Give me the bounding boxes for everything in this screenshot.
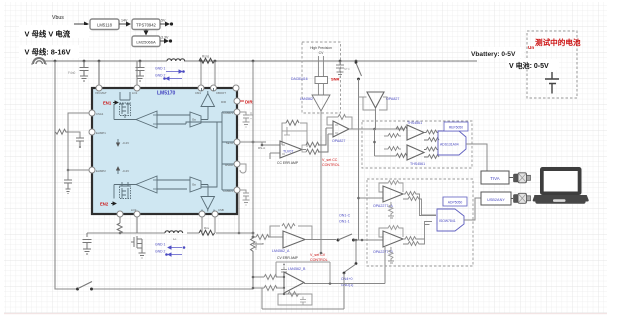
annotation 0.2V ref 2: [117, 167, 119, 174]
label DIR red: [245, 100, 253, 105]
capacitor C3 to ground: [64, 180, 72, 189]
svg-text:ADS131A04: ADS131A04: [440, 143, 459, 147]
pin bottom 1: [117, 211, 123, 217]
capacitor C_in2 with ground: [136, 61, 145, 81]
svg-text:THS4561: THS4561: [407, 121, 422, 125]
feedback resistor R42: [379, 226, 403, 238]
op-amp U16 OPA2277_B: [383, 231, 403, 247]
capacitor C2: [76, 138, 84, 146]
svg-text:CSA1: CSA1: [96, 112, 104, 116]
op-amp U8 OPA827B apex down: [367, 92, 384, 108]
resistor R43 to ground: [388, 247, 394, 263]
wire input taps: [253, 277, 264, 288]
svg-text:USB2ANY: USB2ANY: [487, 198, 505, 202]
wire right rail battery+: [252, 61, 254, 233]
svg-text:V 母线: 8-16V: V 母线: 8-16V: [25, 48, 71, 57]
svg-text:DIR: DIR: [245, 100, 253, 105]
wire output: [302, 149, 306, 151]
op-amp U6 TLV07: [280, 141, 302, 158]
svg-text:CONTROL: CONTROL: [310, 258, 328, 262]
wire gm1 output left: [114, 104, 136, 120]
pin top CBOOT: [211, 85, 217, 91]
wire outputs B: [403, 222, 432, 246]
svg-text:NTC: NTC: [344, 67, 350, 71]
svg-text:TPS70942: TPS70942: [136, 23, 156, 28]
svg-text:5V: 5V: [161, 19, 166, 23]
IC internals: [100, 88, 234, 212]
wire outputs A: [403, 192, 436, 216]
connector J1 (arcs): [33, 58, 45, 64]
wire DAC bus lines: [319, 56, 324, 77]
USB plug P2: [514, 193, 531, 203]
svg-text:CM1: CM1: [195, 91, 201, 95]
ADC U13 ADS131A04: [438, 131, 466, 155]
battery BT1: [545, 72, 559, 94]
svg-text:OPA827: OPA827: [332, 139, 345, 143]
svg-text:V_set CC: V_set CC: [322, 158, 338, 162]
wire ADC output to TIVA: [466, 144, 487, 171]
wire gm2 to mux2: [157, 180, 190, 189]
resistor R23: [264, 275, 284, 280]
pin right HSRD: [234, 161, 240, 167]
wire amp1 outputs to ADC: [424, 130, 439, 142]
IC U1 LM5170 body: [92, 88, 237, 214]
svg-text:V 电池: 0-5V: V 电池: 0-5V: [509, 61, 549, 70]
regulator U_LM5118: [90, 19, 119, 30]
wire DAC to buffer: [319, 84, 324, 96]
op-amp U7 OPA827: [333, 121, 349, 137]
wire output to OPA2277B lower input: [384, 247, 386, 284]
wire SETA to TLV07 input: [240, 141, 262, 143]
resistor R1 (horizontal): [56, 129, 69, 134]
wire EN1 arrow: [113, 102, 118, 104]
wire LM25066A 3.3V output: [160, 40, 168, 42]
op-amp gm2 (points left): [136, 176, 157, 193]
wire driver to pins: [202, 88, 214, 94]
label Vbattery: 0-5V: [469, 47, 524, 58]
svg-text:TLV07: TLV07: [283, 150, 293, 154]
svg-text:GND 1: GND 1: [155, 243, 165, 247]
svg-text:ON1-C: ON1-C: [339, 214, 351, 218]
wire CSA1 pin to left rail: [68, 113, 89, 180]
wire ISOW output to USB2ANY: [464, 198, 481, 220]
svg-text:TIVA: TIVA: [490, 176, 500, 181]
svg-text:CV: CV: [319, 51, 324, 55]
laptop PC: [533, 167, 589, 204]
wire CM2/CSB pins down: [202, 217, 215, 233]
wire output to switch: [305, 239, 336, 241]
svg-text:ADP5050: ADP5050: [448, 201, 463, 205]
svg-text:ON1-1: ON1-1: [339, 220, 350, 224]
box group2: [367, 179, 473, 266]
module TIVA: [481, 171, 509, 184]
op-amp U15 OPA2277_A: [383, 186, 403, 202]
svg-text:Ga: Ga: [192, 183, 196, 187]
wire node split: [375, 129, 397, 156]
transistor Q3: [131, 217, 142, 253]
label EN2 (red): [100, 202, 109, 207]
pin right COMP2: [234, 187, 240, 193]
label CV ERR AMP: [277, 256, 299, 260]
wire TPS70942 5V output: [160, 23, 169, 25]
svg-text:GND 2: GND 2: [155, 74, 165, 78]
transistor pair Q1 top-left: [120, 92, 130, 118]
wire output: [304, 283, 385, 285]
wire bottom loop: [262, 288, 344, 309]
network COMP2: cap+res to ground: [240, 190, 250, 205]
svg-text:Lo: Lo: [173, 237, 177, 241]
wire TIVA to USB plug: [509, 177, 513, 179]
wire right bottom pin drop: [238, 193, 240, 233]
label V busline 8-16V (chinese): [19, 45, 79, 58]
feedback loop: resistor R12 + cap C12: [282, 123, 307, 147]
svg-text:LM4562_B: LM4562_B: [288, 267, 306, 271]
wire pin B1 down + resistor R9 to ground: [117, 217, 122, 233]
svg-text:ExtMP1: ExtMP1: [96, 131, 106, 135]
wire to OPA2277A input: [359, 197, 384, 199]
svg-text:LM25066A: LM25066A: [136, 40, 156, 45]
label V busline V current (chinese): [19, 25, 89, 38]
svg-text:Rsv: Rsv: [204, 226, 210, 230]
regulator U_LM25066A: [132, 36, 160, 47]
wire crossover rect: [186, 122, 217, 187]
cap C25 at +in: [281, 267, 287, 278]
mux M2: [190, 177, 201, 192]
svg-text:测试中的电池: 测试中的电池: [535, 37, 581, 47]
wire rail resistor R22 vertical: [251, 233, 256, 289]
pin top CM1: [198, 85, 204, 91]
svg-text:LM5118: LM5118: [97, 23, 112, 28]
pin bottom CM2: [199, 211, 205, 217]
wire top bus: [44, 60, 167, 62]
label EN1 (red): [103, 101, 112, 106]
svg-text:GND 1: GND 1: [155, 67, 165, 71]
label ON4 GND (blue): [341, 277, 353, 287]
feedback loop below: resistor R25 cap C26: [278, 288, 312, 305]
wire inputs: [326, 128, 333, 134]
label SNR (red): [331, 77, 340, 82]
wire right rail column: [216, 112, 234, 190]
capacitor C7 on bus: [336, 61, 344, 77]
pin left COMP: [89, 129, 95, 135]
wire switch to OPA2277B: [354, 239, 384, 241]
svg-text:EN2: EN2: [100, 202, 109, 207]
svg-text:LM4562: LM4562: [300, 97, 313, 101]
svg-text:ON4+0: ON4+0: [341, 277, 353, 281]
wire buffer input tap: [359, 96, 367, 98]
op-amp U11 THS4561: [407, 125, 424, 140]
wire S4 riser: [343, 273, 345, 309]
switch S_main: [76, 288, 79, 291]
wire gm2 output left: [114, 185, 136, 199]
label CC ERR AMP: [277, 161, 299, 165]
svg-text:OPA827: OPA827: [386, 97, 399, 101]
op-amp buffer LM4562 (apex down): [312, 95, 330, 111]
svg-text:-0.2V: -0.2V: [122, 169, 129, 173]
resistor Rsns2: [199, 230, 215, 235]
driver A1 (top, apex up): [201, 94, 215, 107]
wire amp2 outputs to ADC: [424, 147, 439, 159]
wire CSA2 pin left: [68, 169, 89, 171]
pin top right corner: [233, 85, 239, 91]
wire output to group1: [349, 128, 405, 130]
annotation 0.2V ref: [117, 139, 119, 146]
wire bus drop to LO1 pin (over IC): [136, 61, 138, 85]
svg-text:14V: 14V: [121, 19, 128, 23]
reference U14 box: [444, 122, 468, 131]
pin right COMP1: [234, 109, 240, 115]
op-amp gm1 (points left): [136, 111, 157, 128]
feedback resistor R40: [379, 181, 403, 193]
svg-text:LM5170: LM5170: [157, 91, 176, 97]
svg-text:CONTROL: CONTROL: [322, 163, 340, 167]
wire top loop to CV block: [276, 262, 330, 283]
svg-text:3.3V: 3.3V: [161, 36, 169, 40]
svg-text:Ga: Ga: [192, 118, 196, 122]
svg-text:EN1: EN1: [103, 101, 112, 106]
wire Rsns pins down to IC: [201, 61, 215, 85]
wire stub to cap: [68, 132, 80, 138]
box group1: [362, 121, 472, 168]
label ON1 (blue): [339, 214, 351, 224]
svg-text:REF5050: REF5050: [449, 126, 463, 130]
svg-text:Vbattery: 0-5V: Vbattery: 0-5V: [471, 51, 516, 58]
annotation GND2 arrow bottom (blue): [155, 250, 182, 256]
resistor R14: [306, 134, 328, 154]
op-amp U12 THS4561: [407, 145, 424, 160]
resistor R13: [306, 128, 326, 147]
regulator U_TPS70942: [132, 19, 160, 30]
svg-text:ExtMP2: ExtMP2: [96, 169, 106, 173]
junction dots on bus: [54, 60, 358, 63]
svg-text:GND 2: GND 2: [155, 250, 165, 254]
wire bus drop to pin VIN: [98, 61, 100, 85]
capacitor C4 with ground: [83, 233, 92, 254]
svg-text:LO2: LO2: [131, 208, 137, 212]
box battery under test: [527, 31, 577, 98]
svg-text:V_set CV: V_set CV: [310, 253, 326, 257]
resistor R24: [264, 286, 284, 291]
pin right DIR: [234, 98, 240, 104]
svg-text:Rsns: Rsns: [202, 55, 210, 59]
pin right SETA: [234, 139, 240, 145]
pin left CSA1: [89, 110, 95, 116]
pin top LO1: [134, 85, 140, 91]
wire mux2 to driver2: [201, 185, 208, 197]
mux M1: [190, 112, 201, 127]
wire driver2 to pins: [202, 210, 214, 212]
wire left rail down: [55, 61, 76, 289]
wire output down to THS node: [375, 108, 377, 129]
svg-text:CSB: CSB: [218, 208, 224, 212]
resistor R32: [396, 154, 407, 158]
feedback rect: [363, 97, 387, 110]
pin bottom LO2: [134, 211, 140, 217]
resistor R30: [396, 127, 407, 131]
svg-text:CC ERR AMP: CC ERR AMP: [277, 161, 299, 165]
svg-text:Vbus: Vbus: [52, 15, 64, 21]
svg-text:CV ERR AMP: CV ERR AMP: [277, 256, 299, 260]
svg-text:VIN MGT: VIN MGT: [95, 91, 107, 95]
wire Vbus input arrow: [74, 23, 88, 25]
svg-text:SNR: SNR: [331, 77, 340, 82]
label V battery 0-5V (chinese): [507, 59, 559, 70]
module USB2ANY: [481, 192, 511, 205]
resistor R33: [384, 147, 401, 151]
svg-text:High Precision: High Precision: [310, 46, 332, 50]
resistor R31: [384, 134, 401, 138]
annotation GND1 arrow (blue): [155, 67, 185, 73]
wire gm1 to mux: [157, 115, 190, 124]
label Vset CC CONTROL (red): [322, 158, 340, 167]
label Vbattery vertical: [254, 241, 258, 250]
resistor R41 to ground: [388, 202, 394, 218]
wire bottom rail: [87, 232, 253, 234]
svg-text:ISOW7841: ISOW7841: [439, 219, 456, 223]
network COMP1: cap+res to ground: [240, 112, 250, 127]
wire LM5118 to TPS70942, 14V: [119, 23, 130, 25]
wire HSRD stub: [240, 164, 246, 173]
svg-text:CBOOT: CBOOT: [216, 91, 226, 95]
ground GND_L: [66, 189, 71, 194]
label Vset CV CONTROL (red): [310, 253, 328, 262]
node Vbus label: [52, 15, 64, 21]
feedback loop R15: [327, 117, 352, 129]
wire bus drop to pin LO1: [136, 61, 138, 85]
pin top VIN: [96, 85, 102, 91]
svg-text:LO1: LO1: [132, 91, 138, 95]
switch S3 ON1: [337, 239, 340, 242]
wire EN2 arrow: [111, 203, 116, 205]
annotation GND2 arrow (blue): [155, 74, 182, 80]
transistor pair Q2 bottom-left: [120, 182, 130, 198]
annotation GND1 arrow bottom (blue): [155, 243, 185, 249]
svg-text:LM4562_A: LM4562_A: [272, 249, 290, 253]
wire bottom return rail: [93, 288, 253, 290]
svg-text:V 母线 V 电流: V 母线 V 电流: [25, 29, 71, 38]
isolator U17 ISOW7841: [437, 209, 464, 231]
capacitor C_in1 with ground: [80, 61, 89, 81]
svg-text:THS4561: THS4561: [410, 162, 425, 166]
op-amp U9 LM4562_A: [283, 231, 305, 248]
wire Vset from DAC rail: [320, 136, 322, 253]
op-amp U10 GND sense: [284, 272, 304, 293]
pin left CSA2: [89, 167, 95, 173]
resistor Rsns1 on bus: [199, 58, 215, 63]
wire input 2: [270, 153, 280, 159]
USB plug P1: [514, 173, 531, 183]
wire USB2ANY to USB plug: [511, 198, 513, 200]
wire rail down: [358, 79, 360, 240]
wire buffer output down: [320, 111, 322, 136]
switch S4 vertical: [355, 239, 358, 242]
DAC U5: [315, 77, 328, 84]
svg-text:Un: Un: [528, 45, 534, 50]
driver A2 (bottom, apex down): [201, 197, 215, 210]
switch S2 from bus: [355, 61, 358, 64]
reference U18 box: [443, 197, 467, 206]
inductor L_bus: [167, 59, 185, 61]
wire inputs with resistors: [253, 235, 283, 240]
svg-text:DAC81416: DAC81416: [291, 77, 308, 81]
box High Precision CV: [302, 42, 341, 113]
wire TPS70942 down to LM25066A: [145, 30, 147, 35]
wire mux to driver: [201, 107, 208, 120]
svg-text:-0.2V: -0.2V: [122, 141, 129, 145]
wire input from SETA: [262, 142, 280, 145]
pin bottom CSB: [212, 211, 218, 217]
svg-text:F4n0: F4n0: [68, 71, 75, 75]
wire DIR (red): [240, 100, 244, 102]
svg-text:RS-A: RS-A: [258, 146, 265, 150]
svg-text:DIR: DIR: [221, 100, 226, 104]
inductor L2: [165, 231, 183, 233]
feedback loop R20 C20: [270, 226, 312, 240]
